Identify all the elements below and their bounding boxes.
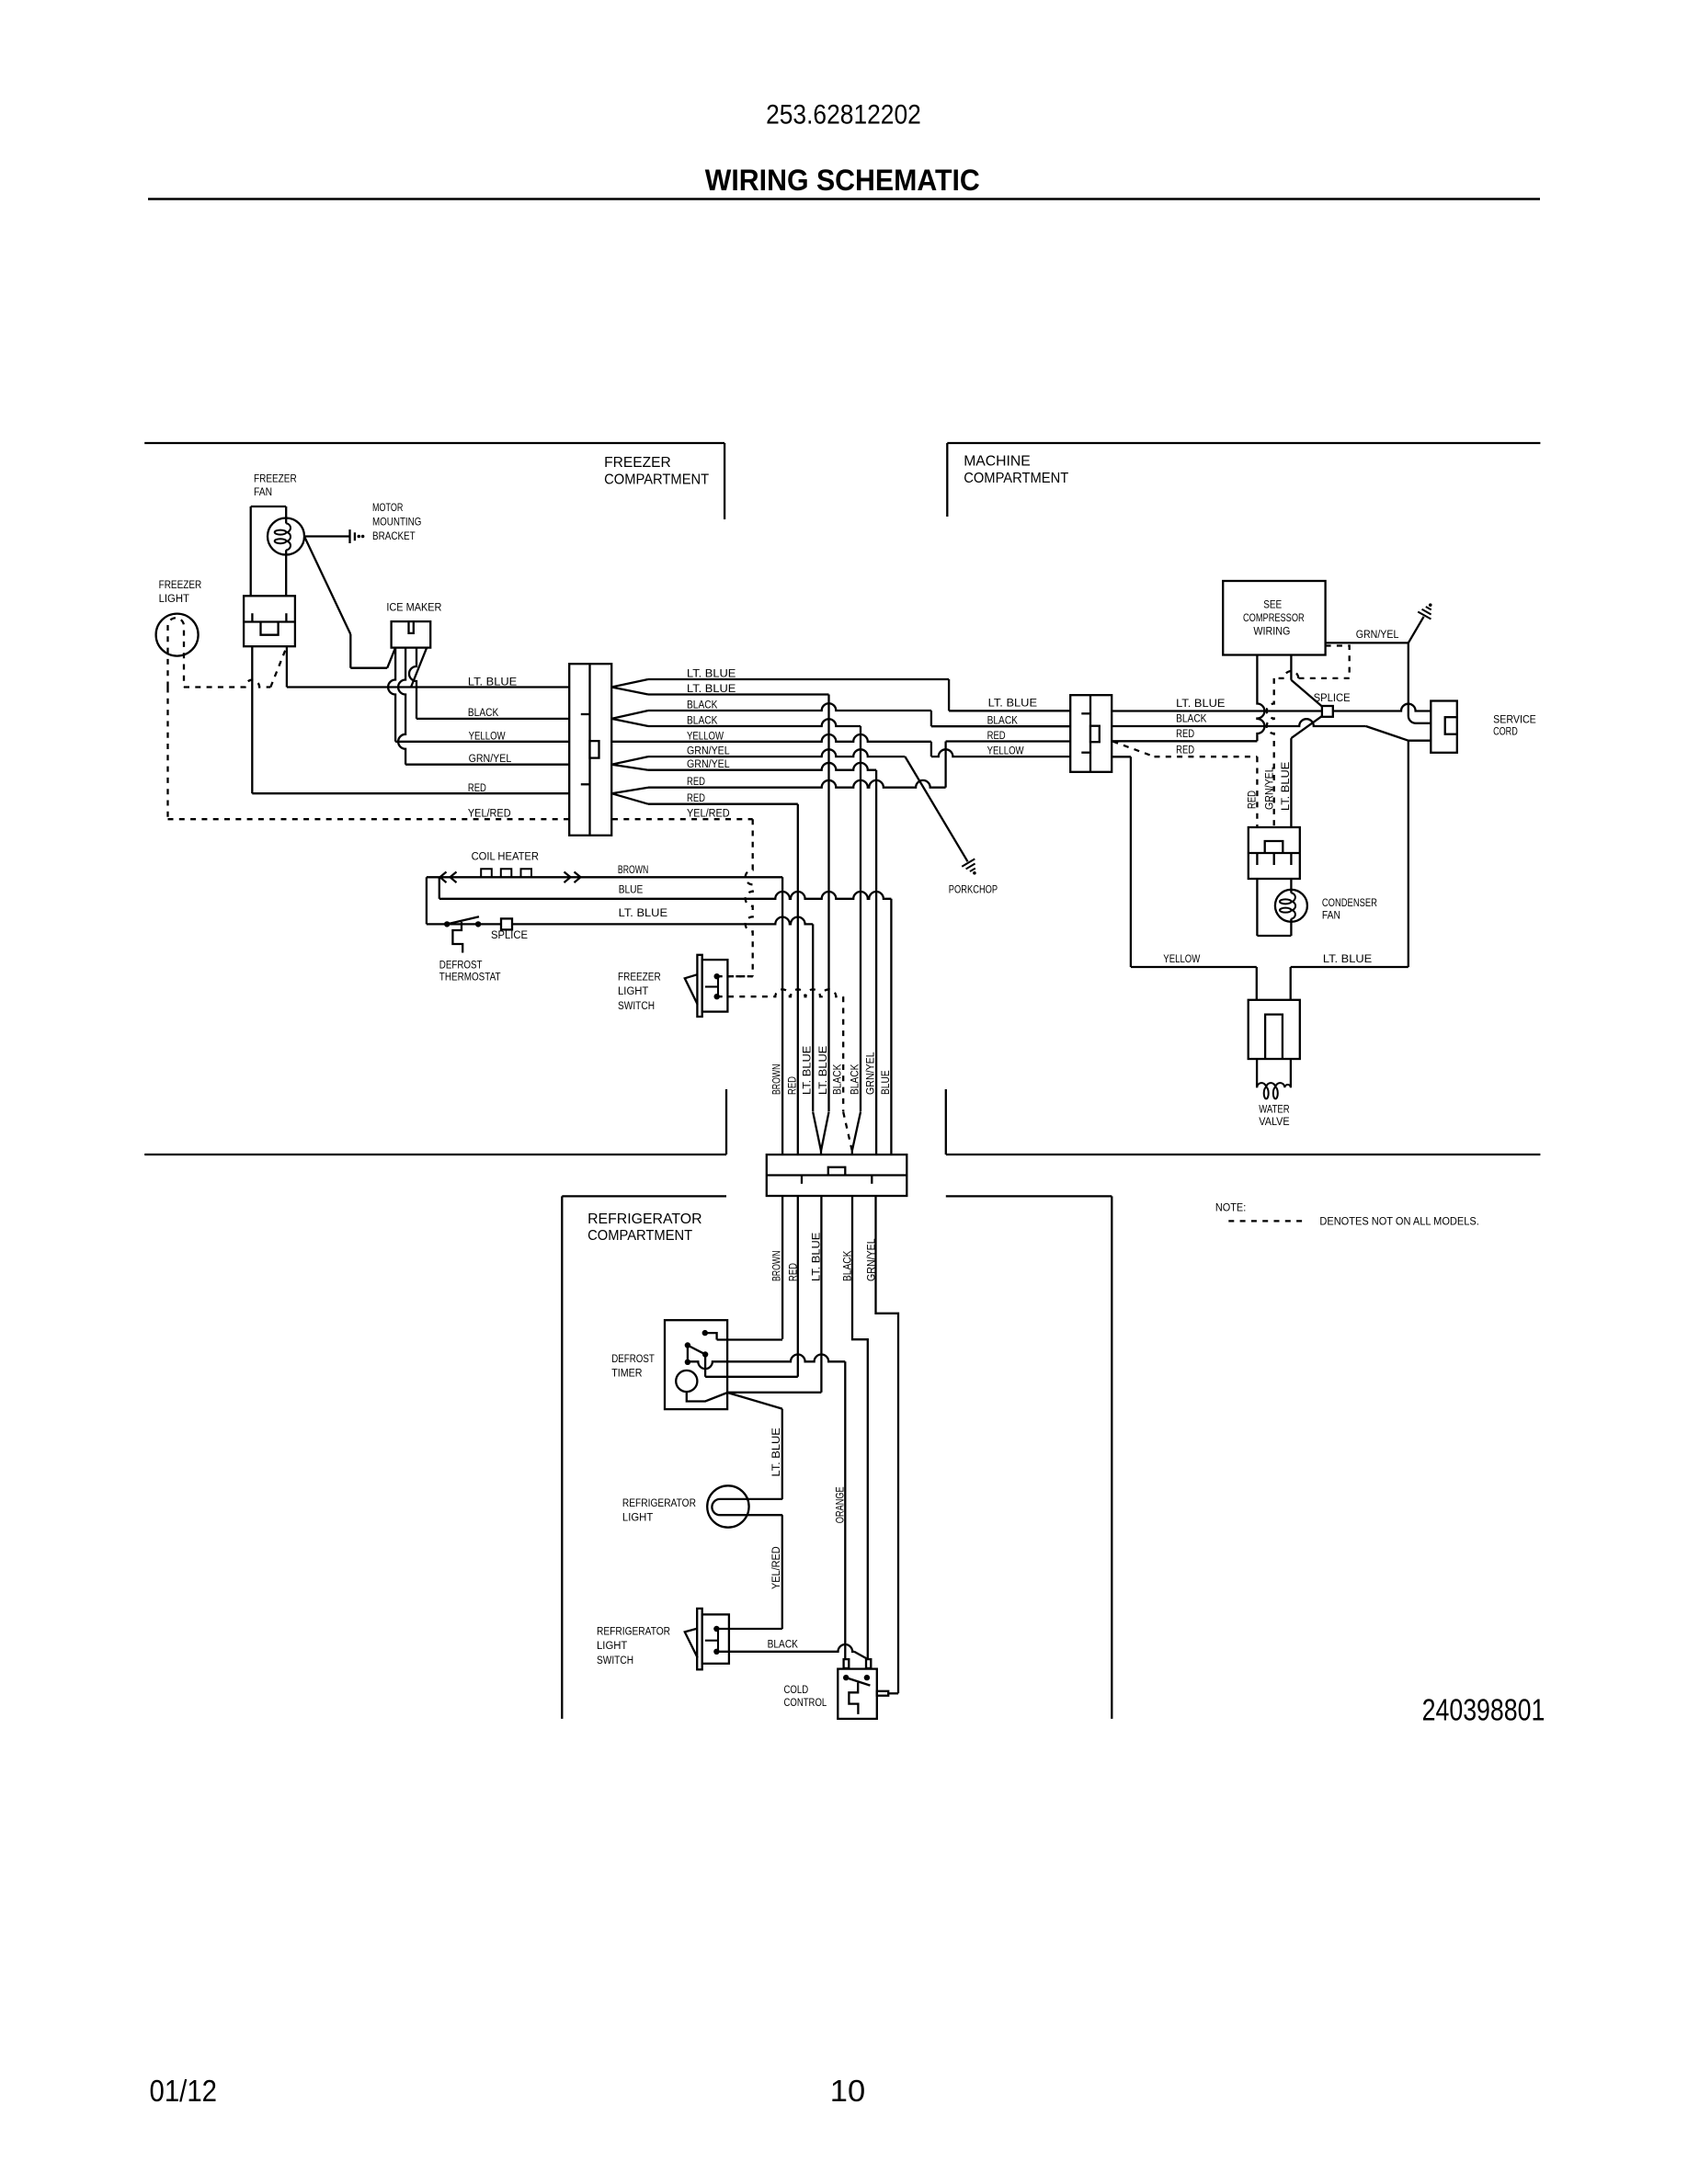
svg-text:FREEZER: FREEZER bbox=[618, 971, 661, 984]
svg-text:RED: RED bbox=[687, 791, 705, 804]
svg-text:253.62812202: 253.62812202 bbox=[766, 100, 921, 131]
svg-text:LT. BLUE: LT. BLUE bbox=[1279, 762, 1292, 811]
svg-text:FAN: FAN bbox=[1322, 908, 1340, 921]
svg-text:ICE MAKER: ICE MAKER bbox=[386, 601, 441, 614]
svg-text:BROWN: BROWN bbox=[770, 1251, 783, 1281]
svg-text:YEL/RED: YEL/RED bbox=[687, 807, 730, 820]
svg-text:GRN/YEL: GRN/YEL bbox=[687, 757, 730, 770]
svg-text:LT. BLUE: LT. BLUE bbox=[619, 906, 667, 919]
svg-text:BROWN: BROWN bbox=[770, 1064, 783, 1095]
svg-text:LT. BLUE: LT. BLUE bbox=[687, 682, 736, 695]
svg-text:YELLOW: YELLOW bbox=[987, 745, 1024, 757]
svg-text:THERMOSTAT: THERMOSTAT bbox=[439, 970, 501, 983]
svg-text:BLACK: BLACK bbox=[687, 714, 718, 727]
svg-text:PORKCHOP: PORKCHOP bbox=[949, 882, 998, 895]
svg-text:VALVE: VALVE bbox=[1259, 1115, 1289, 1128]
svg-text:LT. BLUE: LT. BLUE bbox=[809, 1233, 822, 1281]
svg-text:ORANGE: ORANGE bbox=[833, 1486, 846, 1523]
svg-text:LIGHT: LIGHT bbox=[159, 592, 190, 605]
svg-text:BLACK: BLACK bbox=[831, 1064, 844, 1095]
svg-text:BROWN: BROWN bbox=[618, 863, 648, 876]
svg-text:WIRING SCHEMATIC: WIRING SCHEMATIC bbox=[705, 164, 980, 197]
svg-text:RED: RED bbox=[468, 781, 486, 794]
svg-text:RED: RED bbox=[786, 1263, 799, 1281]
svg-text:BLACK: BLACK bbox=[687, 699, 718, 711]
svg-text:TIMER: TIMER bbox=[611, 1367, 642, 1380]
svg-text:SPLICE: SPLICE bbox=[491, 928, 528, 941]
svg-text:GRN/YEL: GRN/YEL bbox=[864, 1052, 877, 1095]
svg-text:YEL/RED: YEL/RED bbox=[468, 807, 511, 820]
svg-text:LIGHT: LIGHT bbox=[597, 1639, 628, 1652]
svg-text:BLACK: BLACK bbox=[768, 1638, 799, 1651]
svg-text:COMPRESSOR: COMPRESSOR bbox=[1243, 611, 1305, 624]
svg-text:COMPARTMENT: COMPARTMENT bbox=[964, 471, 1068, 486]
svg-text:GRN/YEL: GRN/YEL bbox=[1262, 767, 1275, 810]
svg-text:COLD: COLD bbox=[784, 1683, 809, 1696]
svg-text:MOUNTING: MOUNTING bbox=[372, 516, 421, 529]
svg-text:BLACK: BLACK bbox=[840, 1250, 853, 1281]
svg-text:LT. BLUE: LT. BLUE bbox=[770, 1428, 782, 1476]
svg-text:RED: RED bbox=[687, 775, 705, 788]
svg-text:GRN/YEL: GRN/YEL bbox=[687, 745, 730, 757]
svg-text:MACHINE: MACHINE bbox=[964, 454, 1031, 470]
svg-text:REFRIGERATOR: REFRIGERATOR bbox=[587, 1211, 701, 1227]
svg-text:RED: RED bbox=[785, 1076, 798, 1095]
svg-text:LIGHT: LIGHT bbox=[622, 1511, 654, 1524]
svg-text:SWITCH: SWITCH bbox=[618, 999, 655, 1012]
svg-text:FAN: FAN bbox=[254, 485, 272, 498]
svg-text:BLUE: BLUE bbox=[619, 883, 644, 896]
svg-text:COIL HEATER: COIL HEATER bbox=[472, 850, 539, 863]
svg-text:DEFROST: DEFROST bbox=[439, 958, 483, 971]
svg-text:RED: RED bbox=[987, 729, 1006, 742]
svg-text:RED: RED bbox=[1176, 727, 1194, 740]
svg-text:LT. BLUE: LT. BLUE bbox=[816, 1046, 829, 1095]
svg-text:COMPARTMENT: COMPARTMENT bbox=[587, 1228, 692, 1244]
svg-text:240398801: 240398801 bbox=[1422, 1693, 1545, 1727]
svg-text:WIRING: WIRING bbox=[1253, 625, 1290, 638]
svg-text:SWITCH: SWITCH bbox=[597, 1654, 633, 1666]
svg-text:NOTE:: NOTE: bbox=[1215, 1201, 1246, 1214]
svg-text:DENOTES NOT ON ALL MODELS.: DENOTES NOT ON ALL MODELS. bbox=[1319, 1215, 1478, 1228]
svg-text:LT. BLUE: LT. BLUE bbox=[801, 1046, 814, 1095]
svg-text:10: 10 bbox=[830, 2074, 865, 2108]
svg-text:LT. BLUE: LT. BLUE bbox=[988, 697, 1037, 710]
svg-text:GRN/YEL: GRN/YEL bbox=[1356, 628, 1399, 641]
svg-text:LT. BLUE: LT. BLUE bbox=[687, 667, 736, 680]
svg-text:SERVICE: SERVICE bbox=[1493, 712, 1536, 725]
svg-text:FREEZER: FREEZER bbox=[604, 455, 671, 471]
svg-text:CORD: CORD bbox=[1493, 725, 1518, 738]
svg-text:SPLICE: SPLICE bbox=[1314, 691, 1351, 704]
svg-text:REFRIGERATOR: REFRIGERATOR bbox=[622, 1496, 696, 1509]
svg-text:CONDENSER: CONDENSER bbox=[1322, 896, 1377, 909]
svg-text:GRN/YEL: GRN/YEL bbox=[864, 1238, 877, 1281]
svg-text:LT. BLUE: LT. BLUE bbox=[1176, 697, 1225, 710]
svg-text:RED: RED bbox=[1176, 744, 1194, 756]
svg-text:BLUE: BLUE bbox=[879, 1070, 892, 1095]
svg-text:YEL/RED: YEL/RED bbox=[770, 1546, 782, 1589]
svg-text:CONTROL: CONTROL bbox=[784, 1696, 827, 1709]
svg-text:LIGHT: LIGHT bbox=[618, 984, 649, 997]
svg-text:BLACK: BLACK bbox=[1176, 711, 1207, 724]
svg-text:MOTOR: MOTOR bbox=[372, 501, 403, 514]
svg-text:BRACKET: BRACKET bbox=[372, 529, 416, 542]
svg-text:LT. BLUE: LT. BLUE bbox=[468, 676, 517, 688]
svg-text:YELLOW: YELLOW bbox=[1163, 952, 1200, 965]
svg-text:DEFROST: DEFROST bbox=[611, 1352, 655, 1365]
svg-text:WATER: WATER bbox=[1259, 1103, 1289, 1116]
svg-text:BLACK: BLACK bbox=[468, 706, 499, 719]
svg-text:GRN/YEL: GRN/YEL bbox=[469, 752, 512, 765]
svg-text:RED: RED bbox=[1245, 791, 1258, 809]
svg-text:01/12: 01/12 bbox=[150, 2074, 218, 2108]
svg-text:COMPARTMENT: COMPARTMENT bbox=[604, 472, 709, 487]
svg-text:YELLOW: YELLOW bbox=[469, 730, 506, 743]
svg-text:LT. BLUE: LT. BLUE bbox=[1323, 952, 1372, 965]
svg-text:BLACK: BLACK bbox=[849, 1064, 861, 1095]
svg-text:YELLOW: YELLOW bbox=[687, 729, 724, 742]
svg-text:SEE: SEE bbox=[1263, 597, 1282, 610]
svg-text:FREEZER: FREEZER bbox=[159, 578, 202, 591]
svg-text:FREEZER: FREEZER bbox=[254, 472, 297, 484]
svg-text:BLACK: BLACK bbox=[987, 714, 1019, 727]
svg-text:REFRIGERATOR: REFRIGERATOR bbox=[597, 1625, 670, 1638]
